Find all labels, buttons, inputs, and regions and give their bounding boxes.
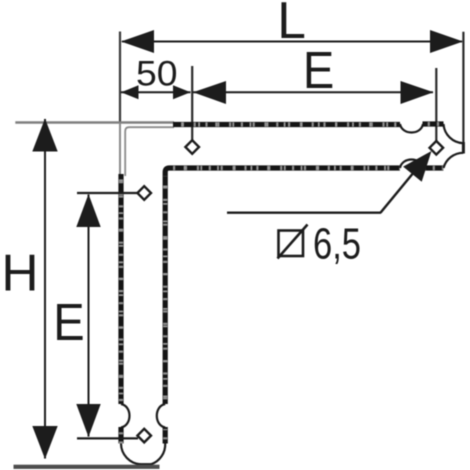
square-hole symbol slash bbox=[278, 225, 308, 259]
arrow E-top left bbox=[193, 81, 226, 104]
hole D3 (left arm, top) bbox=[137, 186, 151, 200]
right end: bottom short serrated segment bbox=[423, 165, 444, 170]
square-hole symbol bbox=[279, 231, 304, 257]
hole D2 (right end) bbox=[430, 141, 444, 155]
leader horizontal segment bbox=[227, 211, 381, 213]
tick line hole D4 bbox=[77, 437, 138, 439]
arrow H down bbox=[32, 426, 57, 459]
dimension L line bbox=[122, 41, 462, 43]
right end: top notch bbox=[400, 124, 423, 132]
bottom end: inner flare arc bbox=[151, 444, 165, 465]
svg-text:6,5: 6,5 bbox=[313, 221, 361, 269]
extension line hole E-top right (x=436.3) bbox=[435, 68, 437, 142]
hole D4 (left arm, bottom) bbox=[137, 429, 151, 443]
bottom end: left notch bbox=[121, 404, 129, 428]
arrow E-top right bbox=[401, 81, 434, 104]
bottom end: inner notch bbox=[157, 404, 165, 428]
arrow E-left up bbox=[76, 194, 100, 227]
leader diagonal segment bbox=[381, 158, 427, 213]
right end: top flare arc bbox=[444, 124, 464, 143]
ground bar bbox=[14, 465, 160, 469]
extension line right (x=463.5) bbox=[462, 32, 464, 142]
svg-text:H: H bbox=[1, 243, 38, 301]
svg-text:L: L bbox=[277, 0, 306, 49]
bottom end: inner short serrated segment bbox=[163, 427, 168, 444]
right end: flat tip bbox=[462, 142, 465, 154]
arrow L right bbox=[430, 30, 463, 53]
bottom end: left short serrated segment bbox=[118, 427, 123, 444]
svg-text:E: E bbox=[303, 41, 334, 99]
arrow H up bbox=[32, 119, 57, 152]
arrow E-left down bbox=[76, 404, 100, 437]
H top reference gray line (y=122.5) bbox=[15, 121, 174, 123]
right end: bottom flare arc bbox=[444, 153, 464, 168]
serrated outer top edge bbox=[173, 122, 400, 127]
svg-text:E: E bbox=[53, 293, 84, 351]
extension line hole E-top left (x=192) bbox=[191, 66, 193, 141]
tick line hole D3 bbox=[77, 192, 138, 194]
serrated inner edges with corner join bbox=[165, 168, 400, 404]
arrow 50 left bbox=[121, 85, 139, 99]
arrow L left bbox=[121, 30, 154, 53]
right end: bottom notch bbox=[400, 160, 423, 168]
serrated outer left edge bbox=[118, 174, 123, 404]
dimension H line bbox=[44, 119, 46, 459]
arrow 50 right bbox=[173, 85, 191, 99]
dimension E top line bbox=[193, 91, 433, 93]
dimension 50 line bbox=[121, 91, 191, 93]
bottom end: flat foot bbox=[140, 463, 153, 466]
extension line left (x=120) bbox=[119, 32, 121, 124]
svg-text:50: 50 bbox=[136, 54, 178, 93]
bottom end: left flare arc bbox=[121, 444, 141, 465]
right end: top short serrated segment bbox=[423, 121, 444, 126]
bracket outer-left thin line near corner bbox=[119, 123, 121, 176]
bracket inner thin outline near corner bbox=[125, 127, 174, 176]
leader arrow bbox=[403, 151, 431, 182]
dimension E left line bbox=[88, 195, 90, 437]
hole D1 (top arm, left) bbox=[185, 140, 199, 154]
